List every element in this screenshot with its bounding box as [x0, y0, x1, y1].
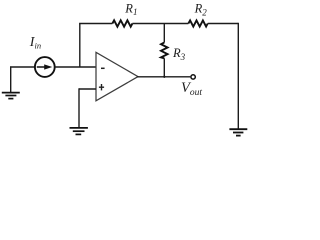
wire: right vertical down to ground — [237, 23, 239, 129]
op-amp U1 triangle — [96, 52, 138, 101]
junction dot at output node — [163, 76, 165, 78]
op-amp plus sign — [99, 84, 104, 90]
ground (middle, + input) — [70, 128, 88, 134]
wire: non-inverting input horizontal — [79, 88, 96, 90]
wire: left vertical drop to ground — [10, 66, 12, 92]
wire: top lead into R1 — [79, 23, 112, 25]
wire: R3 top lead from node A — [163, 24, 165, 43]
wire: current source to op-amp inverting input — [55, 66, 96, 68]
ground (right, R2 return) — [229, 129, 247, 135]
wire: feedback vertical riser — [79, 24, 81, 68]
resistor R2 — [188, 20, 207, 26]
wire: R1 to R2 (node A) — [132, 23, 188, 25]
ground (left, source return) — [2, 93, 20, 99]
wire: R2 to right corner — [208, 23, 239, 25]
resistor R3 — [161, 43, 168, 59]
current source arrow — [37, 64, 53, 69]
op-amp minus sign — [101, 67, 105, 69]
wire: left horizontal from ground corner to current source — [10, 66, 35, 68]
wire: op-amp output to terminal — [137, 76, 190, 78]
wire: R3 bottom lead to output wire — [163, 58, 165, 77]
wire: non-inverting vertical drop to ground — [78, 88, 80, 127]
output terminal (open circle) — [191, 75, 195, 79]
resistor R1 — [112, 20, 132, 26]
current source I1 (circle) — [35, 57, 55, 77]
